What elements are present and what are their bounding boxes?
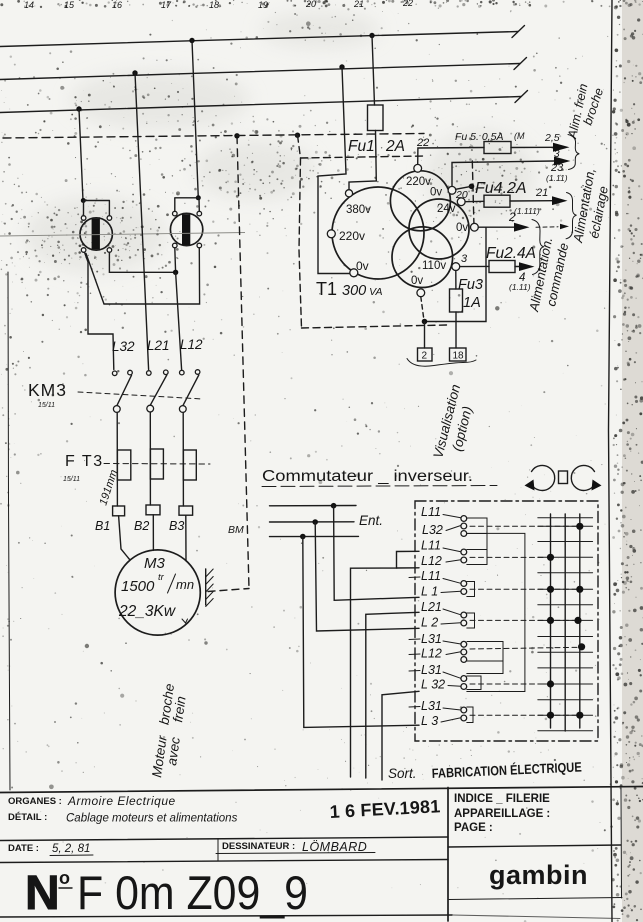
brace alimentation commande — [532, 220, 544, 275]
FT3 heater pole 3 — [183, 450, 196, 480]
svg-text:L11: L11 — [421, 539, 441, 553]
svg-text:L32: L32 — [112, 339, 135, 354]
svg-text:L 1: L 1 — [421, 585, 438, 599]
svg-text:Ent.: Ent. — [359, 513, 383, 528]
terminal 3 — [452, 263, 460, 271]
sheet border right — [609, 0, 613, 922]
node ent 2 — [312, 519, 318, 525]
wire B2 to motor — [152, 515, 154, 551]
title block top line — [0, 787, 643, 793]
grid vertical 2 — [564, 514, 566, 731]
svg-text:LÖMBARD: LÖMBARD — [302, 840, 367, 854]
wire ent bus 2 — [270, 521, 355, 523]
svg-text:DESSINATEUR :: DESSINATEUR : — [222, 841, 295, 852]
terminal block 18 — [450, 348, 467, 361]
jumper group1 — [467, 518, 487, 534]
wire drop line3 to left choke — [79, 109, 83, 201]
wire drop line1 to right choke — [192, 41, 198, 198]
terminal 20 — [457, 198, 465, 206]
wire left choke to L32 column — [85, 252, 114, 369]
choke left — [80, 216, 112, 253]
wire terminal 22 to Fu5 — [418, 148, 484, 165]
wire KM3 pole3 to FT3/B3 — [182, 413, 184, 507]
wire B1 to motor — [119, 516, 130, 560]
svg-text:300 VA: 300 VA — [342, 283, 383, 299]
row label stubs to contacts — [441, 515, 461, 723]
row stub wires at box edge — [409, 577, 420, 707]
svg-text:24v: 24v — [437, 203, 456, 215]
wire brake mechanical link — [208, 589, 249, 592]
KM3 linkage — [78, 392, 203, 399]
title block line number row — [0, 860, 448, 863]
jumper group2 — [467, 550, 487, 565]
svg-text:L21: L21 — [421, 600, 442, 614]
svg-text:L11: L11 — [421, 505, 441, 519]
svg-text:0v: 0v — [411, 275, 423, 287]
svg-text:F 0m Z09_9: F 0m Z09_9 — [77, 866, 308, 919]
wire ent bus 3 — [270, 535, 359, 537]
svg-text:L 3: L 3 — [421, 714, 438, 728]
KM3 contact pole 1 — [112, 370, 132, 412]
svg-text:3: 3 — [554, 149, 560, 160]
svg-text:18: 18 — [453, 351, 465, 362]
svg-text:20: 20 — [305, 0, 316, 9]
svg-text:B2: B2 — [134, 519, 149, 533]
brace alim frein — [568, 135, 579, 170]
wire right choke feed split — [175, 198, 200, 212]
KM3 contact pole 2 — [147, 370, 169, 412]
FT3 linkage — [104, 463, 210, 466]
svg-text:o: o — [59, 868, 70, 888]
node line3 drop A — [76, 106, 81, 111]
wire junction to L12 column — [176, 272, 182, 369]
jumper group7 — [467, 707, 473, 723]
sheet border left — [8, 272, 10, 790]
wire ent L1 feeder to row6 — [334, 506, 419, 601]
svg-text:KM3: KM3 — [28, 380, 67, 400]
svg-text:22: 22 — [402, 0, 413, 8]
KM3 contact pole 3 — [179, 370, 200, 413]
rotation selector square — [559, 471, 568, 484]
wire left choke to junction node — [109, 252, 175, 272]
node control bus A — [234, 133, 239, 138]
svg-text:Sort.: Sort. — [388, 766, 417, 781]
arrow 23 — [554, 157, 571, 166]
node line1 drop B (Fu1) — [369, 33, 374, 38]
fuse Fu2 — [489, 261, 515, 273]
T1 enclosure (dashed box) — [298, 135, 475, 328]
commutator enclosure — [415, 501, 598, 741]
svg-text:ORGANES :: ORGANES : — [8, 796, 62, 807]
wire Fu4 to arrow 21 — [510, 200, 552, 202]
wire KM3 pole1 to FT3/B1 — [116, 413, 118, 507]
wire 0v sec3 drop (dashed) — [421, 297, 424, 319]
svg-text:L31: L31 — [421, 632, 442, 646]
dashed select g5 — [470, 647, 578, 649]
wire Fu5 to arrow — [511, 146, 553, 148]
svg-text:M3: M3 — [144, 555, 165, 572]
svg-text:110v: 110v — [422, 260, 446, 272]
wire left choke feed split — [83, 201, 109, 216]
terminal 0v sec3 — [417, 289, 425, 297]
contact group 2 — [461, 549, 467, 563]
svg-text:INDICE _ FILERIE: INDICE _ FILERIE — [454, 793, 550, 805]
bracket under terminal blocks — [407, 359, 476, 367]
scan fold line — [0, 233, 245, 237]
svg-text:(1.111): (1.111) — [514, 206, 540, 216]
node ent 1 — [331, 503, 337, 509]
svg-text:T1: T1 — [316, 279, 337, 299]
motor M3 — [115, 550, 200, 635]
wire bus line 1 — [0, 32, 518, 47]
title block right divider — [448, 845, 621, 847]
jumper link g1-g2 — [486, 534, 488, 550]
title block date divider — [217, 839, 219, 862]
svg-text:L12: L12 — [180, 337, 203, 352]
node left choke feed — [81, 198, 86, 203]
svg-text:L21: L21 — [147, 338, 170, 353]
grid vertical 1 — [550, 514, 552, 728]
title block right edge — [620, 788, 623, 898]
wire 3 to Fu2 — [460, 265, 489, 267]
svg-text:F T3: F T3 — [65, 453, 104, 470]
transformer T1 primary — [332, 187, 424, 279]
svg-text:1A: 1A — [463, 295, 481, 311]
fuse Fu4 — [484, 195, 510, 207]
wire branch to terminal block 2 — [425, 227, 487, 321]
rotation symbol ccw — [525, 465, 555, 490]
svg-text:APPAREILLAGE :: APPAREILLAGE : — [454, 808, 550, 820]
T1 terminal 0v — [350, 269, 358, 277]
svg-text:15: 15 — [64, 0, 75, 10]
svg-text:Fu3: Fu3 — [458, 277, 483, 293]
node line2 drop A — [132, 70, 137, 75]
rotation symbol cw — [571, 465, 601, 490]
fuse Fu3 — [450, 271, 463, 349]
svg-text:Armoire Electrique: Armoire Electrique — [67, 794, 176, 808]
fuse Fu1 — [349, 36, 383, 190]
node right choke feed — [196, 195, 201, 200]
wire left choke series link to right choke — [86, 248, 200, 304]
svg-text:gambin: gambin — [489, 860, 588, 890]
T1 terminal 380v — [345, 190, 352, 197]
transformer T1 secondary 24v — [409, 199, 469, 259]
svg-text:3: 3 — [461, 253, 468, 265]
wire line2 to L21 column — [135, 73, 149, 370]
jumper group5 — [467, 642, 503, 662]
FT3 heater pole 2 — [150, 449, 163, 479]
fuse Fu5 — [484, 142, 511, 154]
brace alimentation eclairage — [566, 193, 577, 239]
node control bus B — [295, 133, 300, 138]
grid vertical 3 — [579, 514, 581, 728]
svg-text:L31: L31 — [421, 699, 442, 713]
svg-text:L31: L31 — [421, 663, 442, 677]
terminal 0v sec2 — [471, 223, 479, 231]
wire ent L2 feeder to row8 — [315, 522, 419, 631]
arrow 25 — [553, 143, 570, 152]
svg-text:Fu 5. 0,5A: Fu 5. 0,5A — [455, 131, 503, 143]
title block gambin bottom — [449, 898, 622, 900]
wire sort feeder 1 stub — [397, 567, 420, 569]
svg-text:0v: 0v — [456, 222, 468, 234]
dashed select g3 — [470, 588, 576, 590]
svg-text:L12: L12 — [421, 554, 442, 568]
title underline — [262, 486, 497, 487]
FT3 heater pole 1 — [117, 450, 130, 480]
row labels — [421, 505, 445, 728]
terminal 220v sec — [414, 164, 422, 172]
choke right — [170, 211, 202, 248]
motor chassis hatch — [206, 569, 214, 607]
svg-text:Fu1: Fu1 — [348, 138, 375, 155]
svg-text:L32: L32 — [422, 523, 443, 537]
wire node to terminal block 2 — [424, 322, 426, 349]
terminal B2 — [146, 505, 160, 515]
contact group 3 — [461, 581, 467, 595]
jumper group6 — [467, 676, 481, 690]
node branch — [422, 319, 428, 325]
wire line2 to T1 0v — [318, 67, 350, 274]
svg-text:22_3Kw: 22_3Kw — [118, 603, 177, 620]
contact group 5 — [461, 641, 467, 662]
wire sort feeder 2 — [366, 612, 419, 778]
transformer T1 secondary 110v — [392, 227, 453, 288]
arrow 2 — [514, 223, 530, 232]
T1 terminal 220v — [327, 230, 335, 238]
svg-text:L 32: L 32 — [421, 678, 445, 692]
jumper group3 — [467, 582, 475, 597]
arrow 21 — [552, 196, 568, 205]
svg-text:Cablage moteurs et alimenta: Cablage moteurs et alimentations — [66, 813, 238, 825]
wire right choke to junction node — [174, 248, 177, 272]
wire 20 to Fu4 — [465, 200, 484, 202]
svg-text:(1.11): (1.11) — [546, 173, 568, 183]
node L12 junction — [173, 270, 178, 275]
node ent 3 — [300, 534, 306, 540]
svg-text:220v: 220v — [339, 229, 365, 243]
svg-text:mn: mn — [176, 577, 194, 592]
svg-text:20: 20 — [455, 189, 468, 201]
wire ent bus 1 — [270, 505, 357, 507]
svg-text:Commutateur _ inverseur.: Commutateur _ inverseur. — [262, 468, 473, 485]
svg-text:(1.11): (1.11) — [509, 282, 531, 292]
contact group 6 — [461, 676, 467, 690]
svg-text:B1: B1 — [95, 519, 110, 533]
dashes after arrow 2 — [536, 226, 558, 228]
wire B3 to motor — [185, 515, 187, 561]
svg-text:Fu4.2A: Fu4.2A — [475, 180, 527, 197]
contact group 1 — [461, 516, 467, 537]
jumper group4 — [467, 613, 475, 628]
svg-text:22: 22 — [416, 137, 429, 149]
grid rungs — [538, 518, 593, 731]
svg-text:1500: 1500 — [121, 578, 155, 595]
arrow 4 — [519, 262, 535, 271]
svg-text:0v: 0v — [356, 259, 369, 273]
svg-text:17: 17 — [161, 0, 172, 10]
svg-text:19: 19 — [258, 0, 268, 10]
svg-text:PAGE :: PAGE : — [454, 822, 493, 834]
dashed select g4 — [470, 619, 574, 621]
jumper L32 row2 to row12 — [467, 533, 525, 691]
svg-text:21: 21 — [353, 0, 364, 9]
svg-text:14: 14 — [24, 0, 34, 10]
column numbers 14-22 — [24, 0, 413, 10]
svg-text:15/11: 15/11 — [38, 402, 55, 409]
terminal B3 — [179, 506, 193, 515]
svg-text:220v: 220v — [406, 176, 431, 188]
svg-text:B3: B3 — [169, 519, 184, 533]
dashed select g7 — [470, 714, 576, 716]
crosspoint dots — [547, 523, 585, 719]
terminal block 2 — [418, 348, 433, 361]
svg-text:L12: L12 — [421, 647, 442, 661]
wire 0v sec2 to arrow 2 — [478, 226, 514, 228]
svg-text:DÉTAIL :: DÉTAIL : — [8, 812, 47, 823]
terminal B1 — [113, 506, 125, 516]
svg-text:0v: 0v — [430, 187, 442, 199]
svg-text:16: 16 — [112, 0, 122, 10]
svg-text:tr: tr — [158, 572, 165, 583]
wire 0v sec1 to arrow 23 — [452, 161, 554, 186]
svg-text:DATE :: DATE : — [8, 843, 39, 854]
jumper g5 to row11 — [467, 661, 503, 674]
svg-text:BM: BM — [228, 524, 244, 536]
title block line date row — [0, 837, 448, 841]
wire sort feeder 1 — [351, 551, 420, 777]
transformer T1 secondary 220v — [390, 171, 450, 231]
wire bus line 3 — [0, 97, 521, 113]
node line1 drop A — [189, 38, 194, 43]
title block main vertical — [447, 788, 449, 922]
wire stub 0v to node — [456, 186, 472, 189]
svg-text:N: N — [25, 867, 60, 920]
svg-text:15/11: 15/11 — [63, 476, 80, 483]
svg-text:Fu2.4A: Fu2.4A — [486, 245, 536, 262]
svg-text:(M: (M — [514, 131, 525, 141]
svg-text:L11: L11 — [421, 569, 441, 583]
svg-text:2: 2 — [422, 351, 428, 362]
svg-text:21: 21 — [535, 187, 548, 199]
svg-text:L 2: L 2 — [421, 616, 438, 630]
dashed select g6 — [470, 683, 546, 685]
wire control bus (dashed) — [3, 134, 424, 139]
svg-text:380v: 380v — [346, 204, 371, 216]
wire KM3 pole2 to FT3/B2 — [149, 412, 151, 505]
wire sort feeder 3 — [382, 691, 419, 780]
svg-text:18: 18 — [209, 0, 219, 10]
svg-text:2: 2 — [508, 212, 516, 224]
svg-text:2,5: 2,5 — [544, 132, 560, 144]
terminal 0v sec1 — [448, 186, 456, 194]
wire bus line 2 — [0, 64, 520, 80]
svg-text:2A: 2A — [385, 138, 405, 155]
dashed select g1 — [470, 525, 576, 527]
svg-text:5, 2, 81: 5, 2, 81 — [52, 843, 90, 855]
contact group 7 — [461, 707, 467, 721]
dashed select g2 — [470, 556, 546, 558]
sheet bottom border — [0, 915, 452, 917]
wire brake drop from control bus — [237, 136, 249, 589]
wire ent L3 feeder to row14 — [303, 537, 419, 728]
contact group 4 — [461, 612, 467, 626]
node T1 box edge — [469, 184, 475, 190]
node line2 drop B (T1) — [339, 64, 344, 69]
